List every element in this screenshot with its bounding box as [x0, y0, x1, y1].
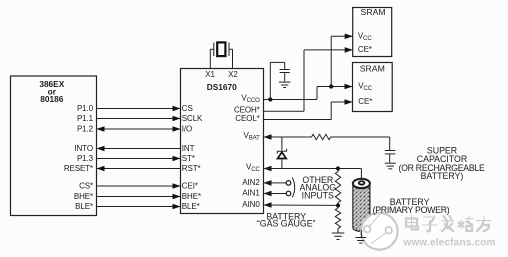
junction dot VCC divider	[336, 166, 340, 170]
svg-text:AIN2: AIN2	[242, 178, 260, 187]
svg-text:P1.2: P1.2	[77, 125, 94, 134]
svg-text:SRAM: SRAM	[360, 64, 385, 74]
svg-text:CE*: CE*	[358, 45, 372, 54]
wire BLE* to BLEI	[97, 204, 181, 210]
svg-text:CE*: CE*	[358, 97, 372, 106]
wire INT to INTO	[97, 146, 181, 152]
svg-text:DS1670: DS1670	[207, 82, 237, 92]
wire VBAT net	[264, 134, 390, 150]
svg-text:INTO: INTO	[74, 144, 93, 153]
IC U4 SRAM lower	[353, 63, 393, 112]
svg-text:X1: X1	[205, 70, 215, 79]
annotation BATTERY PRIMARY POWER	[373, 197, 450, 215]
svg-text:INPUTS: INPUTS	[302, 190, 334, 200]
resistor R2 gas-gauge divider upper	[335, 169, 340, 206]
wire AIN1 input	[264, 191, 287, 197]
svg-text:INT: INT	[182, 144, 195, 153]
svg-text:P1.0: P1.0	[77, 104, 94, 113]
terminal AIN2 open circle	[286, 181, 291, 186]
wire Y1 to X1	[209, 49, 211, 68]
svg-text:CEI*: CEI*	[182, 182, 198, 191]
arrow into U3 VCC	[345, 34, 353, 40]
wire battery negative stub	[360, 230, 362, 237]
svg-text:ST*: ST*	[182, 154, 195, 163]
IC U2 DS1670 system controller	[181, 69, 264, 214]
ground G4 battery	[355, 238, 366, 244]
IC U3 SRAM upper	[353, 7, 392, 57]
wire BHE* to BHEI	[97, 194, 181, 200]
IC U1 microprocessor 386EX or 80186	[11, 76, 97, 216]
wire AIN0 to divider tap	[264, 202, 337, 208]
annotation SUPER CAPACITOR	[398, 146, 485, 181]
capacitor C2 super capacitor	[385, 151, 396, 163]
brace analog inputs	[292, 178, 294, 198]
svg-text:SCLK: SCLK	[182, 114, 203, 123]
wire Y1 to X2	[232, 49, 234, 68]
svg-text:AIN1: AIN1	[242, 188, 260, 197]
wire CEOH* to U3 CE*	[264, 47, 353, 111]
svg-text:BLE*: BLE*	[75, 202, 93, 211]
wire P1.3 to ST*	[97, 156, 181, 162]
ground G3	[332, 233, 345, 240]
terminal AIN1 open circle	[286, 191, 291, 196]
wire P1.0 to CS	[97, 106, 181, 112]
svg-text:I/O: I/O	[182, 125, 192, 134]
svg-text:SRAM: SRAM	[361, 7, 386, 17]
svg-text:RESET*: RESET*	[64, 164, 93, 173]
ground G2	[385, 163, 396, 169]
svg-text:RST*: RST*	[182, 164, 201, 173]
diode D1 Schottky VCC-to-VBAT	[277, 137, 287, 169]
annotation BATTERY GAS GAUGE	[257, 212, 316, 229]
svg-text:BATTERY): BATTERY)	[421, 171, 464, 181]
battery BT1 primary power	[353, 179, 370, 232]
annotation OTHER ANALOG INPUTS	[299, 175, 336, 200]
svg-text:CS: CS	[182, 104, 193, 113]
wire VCC net	[264, 166, 362, 172]
svg-text:CS*: CS*	[79, 182, 93, 191]
ground G1	[279, 82, 291, 87]
svg-text:X2: X2	[228, 70, 238, 79]
wire CEOL* to U4 CE*	[264, 99, 353, 119]
resistor R1 charging series	[312, 134, 331, 139]
svg-text:BHE*: BHE*	[182, 192, 201, 201]
arrow into U4 VCC	[345, 84, 353, 90]
svg-text:CEOL*: CEOL*	[235, 114, 259, 123]
wire P1.2 to I/O bidirectional	[97, 126, 181, 132]
junction dot VCCO	[268, 97, 272, 101]
svg-text:www.elecfans.com: www.elecfans.com	[402, 237, 495, 248]
crystal Y1	[210, 42, 232, 56]
junction dot VCC rail	[329, 84, 333, 88]
capacitor C1 decoupling	[280, 70, 290, 82]
svg-text:(PRIMARY POWER): (PRIMARY POWER)	[373, 205, 450, 215]
svg-text:80186: 80186	[40, 94, 63, 104]
wire AIN2 input	[264, 180, 287, 186]
junction dot AIN0 tap	[336, 203, 340, 207]
svg-text:BHE*: BHE*	[74, 192, 93, 201]
wire VCC to battery positive	[360, 169, 362, 180]
wire CS* to CEI*	[97, 183, 181, 189]
svg-text:AIN0: AIN0	[242, 200, 260, 209]
svg-text:BLE*: BLE*	[182, 202, 200, 211]
wire P1.1 to SCLK	[97, 116, 181, 122]
svg-text:“GAS GAUGE”: “GAS GAUGE”	[257, 219, 316, 229]
wire VCCO net to SRAM VCC rail	[264, 36, 353, 99]
wire RST* to RESET*	[97, 166, 181, 172]
svg-text:P1.1: P1.1	[77, 114, 94, 123]
resistor R3 gas-gauge divider lower	[335, 206, 340, 233]
svg-text:P1.3: P1.3	[77, 154, 94, 163]
